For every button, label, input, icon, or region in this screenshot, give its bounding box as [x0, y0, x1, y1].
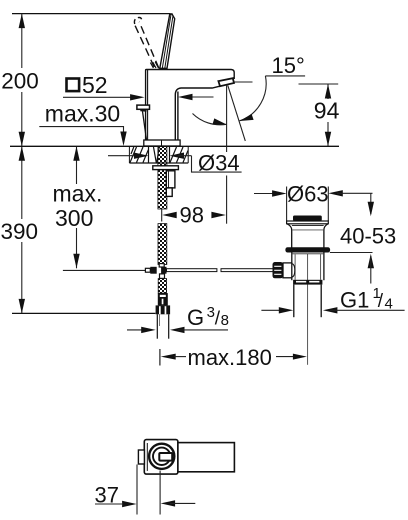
- spout tip level line: [234, 81, 253, 83]
- svg-text:200: 200: [1, 68, 39, 93]
- dimension Ø34 leader and arrows: [108, 151, 242, 176]
- spout plumb line: [226, 85, 228, 224]
- plan view cartridge circles: [149, 444, 174, 469]
- 15 degree dimension arc with arrowheads: [193, 76, 267, 125]
- dimension 390: [1, 146, 39, 313]
- svg-text:Ø63: Ø63: [287, 182, 329, 207]
- label max.30 with leader arrow: [39, 101, 126, 146]
- svg-text:8: 8: [221, 312, 229, 329]
- faucet base plate: [144, 140, 180, 146]
- aerator at spout tip: [218, 78, 234, 86]
- plan view lever cross-section: [159, 453, 172, 461]
- counter cross-section hatching right: [170, 146, 189, 163]
- mounting washer: [153, 166, 179, 170]
- dimension 37: [95, 465, 196, 515]
- lever handle (dashed alternate position): [134, 18, 158, 69]
- dimension Ø63: [254, 182, 373, 222]
- dimension 200: [1, 14, 39, 147]
- pop-up rod horizontal line: [63, 269, 275, 272]
- svg-text:G1: G1: [340, 288, 369, 313]
- svg-text:G: G: [187, 305, 204, 330]
- pop-up rod tab on body left: [137, 105, 150, 140]
- drain top plate: [287, 221, 329, 224]
- svg-text:15°: 15°: [272, 53, 305, 78]
- mounting nut: [166, 171, 175, 197]
- svg-text:40-53: 40-53: [340, 224, 396, 249]
- dimension max.180: [160, 345, 307, 370]
- label G 3/8 with leader: [127, 304, 229, 333]
- svg-text:/: /: [378, 291, 384, 312]
- svg-text:52: 52: [82, 72, 108, 98]
- plan view body square: [144, 440, 178, 475]
- svg-text:4: 4: [385, 296, 393, 313]
- svg-text:max.30: max.30: [45, 101, 120, 127]
- rod-to-hose cross fitting: [145, 264, 166, 279]
- svg-text:300: 300: [55, 205, 93, 231]
- drain tail pipe: [294, 285, 321, 318]
- supply pipe tail: [157, 314, 168, 338]
- drain bottom collar: [293, 280, 322, 285]
- svg-text:98: 98: [180, 203, 204, 228]
- faucet body outline: [146, 70, 235, 141]
- dimension max.300: [53, 146, 103, 268]
- svg-text:max.: max.: [53, 180, 103, 206]
- plan view left tab: [138, 450, 144, 464]
- 15 degree tilted line: [228, 85, 246, 140]
- pop-up knob on drain: [273, 262, 292, 278]
- drain body: [292, 253, 324, 281]
- supply hose upper section (threaded shank): [158, 146, 167, 209]
- label square52 with arrows at faucet body: [63, 72, 214, 101]
- plan view spout rectangle: [178, 443, 235, 472]
- 15 degree label: [265, 53, 305, 78]
- supply hose lower section: [158, 279, 166, 294]
- top reference line: [12, 13, 171, 15]
- label G1 1/4 with leader: [261, 285, 404, 314]
- counter underside line: [129, 162, 188, 164]
- drain centerline: [307, 254, 309, 365]
- dimension 98: [162, 203, 226, 228]
- G 3/8 connection nut: [156, 305, 171, 314]
- svg-text:3: 3: [207, 304, 215, 321]
- drain neck: [287, 224, 328, 248]
- svg-text:max.180: max.180: [188, 345, 272, 370]
- dimension 40-53: [330, 193, 396, 283]
- dimension 94: [299, 84, 340, 146]
- countertop line: [10, 145, 339, 147]
- svg-text:Ø34: Ø34: [198, 151, 240, 176]
- drain pop-up plug cap: [293, 216, 322, 222]
- counter cross-section hatching left: [129, 146, 148, 163]
- svg-text:390: 390: [1, 219, 39, 244]
- hose ferrule: [158, 293, 168, 305]
- pop-up rod through counter hole: [154, 147, 160, 163]
- 390 bottom reference line: [12, 312, 155, 314]
- lever handle (solid position): [160, 14, 175, 69]
- supply hose middle section: [158, 224, 167, 265]
- drain seal flange: [285, 247, 330, 252]
- svg-text:94: 94: [314, 98, 340, 124]
